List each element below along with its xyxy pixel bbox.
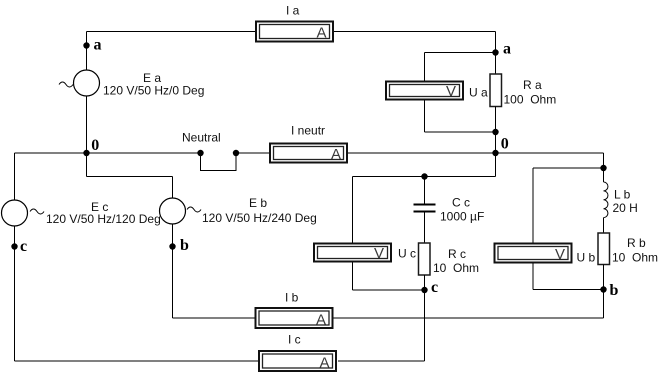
svg-text:A: A <box>316 312 326 329</box>
voltmeter Ub <box>495 244 572 264</box>
svg-text:0: 0 <box>91 137 99 154</box>
svg-text:c: c <box>20 238 27 255</box>
wire Cc top <box>424 177 426 204</box>
wire Rc bottom <box>424 275 426 290</box>
wire neutral dip <box>201 153 237 171</box>
wire node a left vertical <box>86 32 88 71</box>
svg-text:U b: U b <box>577 251 596 265</box>
wire node a right vertical <box>495 32 497 75</box>
svg-text:10 Ohm: 10 Ohm <box>612 251 658 265</box>
node c left <box>11 243 17 249</box>
svg-text:C c: C c <box>452 196 470 210</box>
wire Ub top horizontal <box>533 167 604 169</box>
wire Ua bottom horizontal <box>425 131 496 133</box>
svg-text:I neutr: I neutr <box>291 124 325 138</box>
svg-text:c: c <box>431 279 438 296</box>
svg-text:I c: I c <box>288 333 301 347</box>
svg-text:A: A <box>316 25 326 42</box>
wire Uc bottom vertical <box>352 263 354 291</box>
voltmeter Ua <box>386 82 463 101</box>
wire Ub top vertical <box>532 168 534 243</box>
svg-text:20 H: 20 H <box>613 201 638 215</box>
wire Rb bottom <box>603 265 605 290</box>
svg-text:V: V <box>555 246 565 263</box>
wire node0 to Eb down <box>86 153 88 177</box>
svg-text:b: b <box>180 237 189 254</box>
svg-text:L b: L b <box>614 188 631 202</box>
wire node b to Ib <box>603 290 605 319</box>
wire node0 to Eb horizontal <box>87 176 173 178</box>
node 0 left <box>83 150 89 156</box>
svg-text:I b: I b <box>285 291 299 305</box>
junction Ub top <box>600 165 606 171</box>
voltmeter Uc <box>314 244 391 263</box>
node neutral right <box>233 150 239 156</box>
node b right <box>600 286 606 292</box>
svg-text:a: a <box>94 37 102 54</box>
node a right <box>492 49 498 55</box>
svg-text:U c: U c <box>398 247 416 261</box>
ammeter Ia <box>256 22 333 42</box>
wire node0 right to Cc branch down <box>495 153 497 177</box>
wire Ea bottom to node 0 <box>86 96 88 153</box>
wire Ec bottom <box>14 226 16 361</box>
wire neutral rail left <box>15 152 201 154</box>
ammeter Ic <box>259 351 336 372</box>
node b left <box>169 243 175 249</box>
wire Ib left <box>173 317 255 319</box>
voltage source Ec <box>2 200 45 226</box>
svg-text:I a: I a <box>286 4 300 18</box>
wire Eb bottom <box>172 224 174 318</box>
voltage source Ea <box>59 70 100 96</box>
wire Ua top horizontal <box>425 52 496 54</box>
capacitor Cc <box>414 205 436 212</box>
wire Eb top <box>172 177 174 199</box>
wire Cc to Rc <box>424 213 426 244</box>
svg-text:U a: U a <box>469 86 488 100</box>
wire neutral rail right <box>348 152 604 154</box>
node a left <box>83 42 89 48</box>
svg-text:V: V <box>374 245 384 262</box>
node neutral left <box>197 150 203 156</box>
wire Ub bottom horizontal <box>533 289 604 291</box>
svg-text:R c: R c <box>448 247 466 261</box>
junction Ra-Ua <box>492 129 498 135</box>
resistor Rc <box>419 243 431 275</box>
wire node c to Ic <box>424 290 426 361</box>
node 0 right junction <box>492 150 498 156</box>
wire right branch top <box>603 153 605 182</box>
wire Cc branch horizontal <box>353 176 496 178</box>
svg-text:100 Ohm: 100 Ohm <box>504 93 557 107</box>
wire Ic left <box>15 360 259 362</box>
wire top rail right segment <box>334 31 496 33</box>
svg-text:Neutral: Neutral <box>182 131 221 145</box>
node c right <box>421 287 427 293</box>
ammeter Ib <box>256 308 333 329</box>
svg-text:10 Ohm: 10 Ohm <box>433 261 479 275</box>
wire Ua top vertical <box>424 53 426 81</box>
resistor Rb <box>598 233 610 265</box>
svg-text:R b: R b <box>627 236 646 250</box>
svg-text:b: b <box>610 282 619 299</box>
svg-text:1000 µF: 1000 µF <box>440 210 484 224</box>
junction Cc branch <box>421 173 427 179</box>
wire Ec top <box>14 153 16 200</box>
wire Ua bottom vertical <box>424 101 426 133</box>
svg-text:E b: E b <box>249 196 267 210</box>
wire Ub bottom vertical <box>532 263 534 290</box>
svg-text:120 V/50 Hz/120 Deg: 120 V/50 Hz/120 Deg <box>46 212 161 226</box>
svg-text:A: A <box>319 355 329 372</box>
svg-text:120 V/50 Hz/240 Deg: 120 V/50 Hz/240 Deg <box>202 211 317 225</box>
resistor Ra <box>490 74 502 107</box>
svg-text:120 V/50 Hz/0 Deg: 120 V/50 Hz/0 Deg <box>103 84 204 98</box>
inductor Lb <box>604 182 608 218</box>
wire neutral to ammeter <box>236 152 269 154</box>
wire top rail left segment <box>87 31 256 33</box>
wire Ic right <box>338 360 425 362</box>
svg-text:0: 0 <box>501 136 509 153</box>
voltage source Eb <box>160 198 202 224</box>
svg-text:V: V <box>446 83 456 100</box>
svg-text:a: a <box>503 41 511 58</box>
wire Ra bottom <box>495 107 497 133</box>
wire Lb to Rb <box>603 218 605 233</box>
wire Ib right <box>334 317 604 319</box>
svg-text:A: A <box>331 146 341 163</box>
svg-text:R a: R a <box>523 78 542 92</box>
wire Uc bottom horizontal <box>353 289 425 291</box>
wire Uc top vertical <box>352 177 354 243</box>
ammeter Ineutr <box>270 144 347 164</box>
wire to node 0 right <box>495 132 497 153</box>
